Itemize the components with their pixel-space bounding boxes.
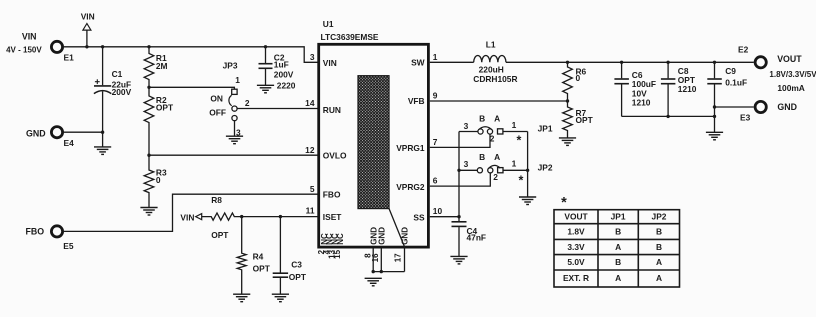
svg-text:JP2: JP2 bbox=[538, 162, 553, 172]
svg-text:3: 3 bbox=[464, 159, 469, 169]
svg-text:R8: R8 bbox=[211, 195, 222, 205]
svg-text:VIN: VIN bbox=[323, 58, 337, 68]
ground below C2 bbox=[257, 85, 274, 93]
svg-text:OPT: OPT bbox=[156, 103, 174, 113]
svg-text:3: 3 bbox=[464, 121, 469, 131]
svg-text:10: 10 bbox=[433, 206, 443, 216]
svg-text:2: 2 bbox=[490, 133, 495, 143]
junction C9/bus bbox=[713, 61, 716, 64]
svg-text:100mA: 100mA bbox=[777, 83, 804, 93]
label R2 value bbox=[156, 95, 174, 113]
svg-text:B: B bbox=[479, 113, 485, 123]
junction C6/bus bbox=[620, 61, 623, 64]
wire VOUT bus bbox=[506, 61, 754, 63]
wire JP1 pin1 bbox=[503, 131, 528, 133]
svg-text:7: 7 bbox=[433, 137, 438, 147]
junction pin16/gnd bbox=[380, 270, 383, 273]
inductor L1 bbox=[474, 55, 506, 62]
junction C1/E4 bbox=[101, 131, 104, 134]
junction C1/bus bbox=[101, 45, 104, 48]
wire JP pin3 column bbox=[458, 132, 460, 217]
svg-text:1.8V: 1.8V bbox=[567, 227, 585, 237]
svg-text:NC: NC bbox=[336, 233, 345, 245]
svg-text:E3: E3 bbox=[740, 112, 751, 122]
svg-text:9: 9 bbox=[433, 91, 438, 101]
svg-text:JP1: JP1 bbox=[538, 124, 553, 134]
svg-text:1210: 1210 bbox=[678, 84, 697, 94]
svg-text:1: 1 bbox=[512, 159, 517, 169]
resistor R6 bbox=[563, 62, 573, 101]
svg-text:VOUT: VOUT bbox=[777, 54, 802, 64]
svg-text:E5: E5 bbox=[63, 241, 74, 251]
wire SW to L1 bbox=[430, 61, 474, 63]
svg-text:SW: SW bbox=[411, 58, 425, 68]
wire OVLO net bbox=[149, 154, 318, 156]
label R3 value bbox=[156, 167, 167, 185]
svg-text:47nF: 47nF bbox=[467, 233, 487, 243]
label C8 value bbox=[678, 66, 697, 94]
svg-text:1: 1 bbox=[433, 52, 438, 62]
capacitor C9 bbox=[707, 62, 722, 132]
svg-text:12: 12 bbox=[305, 145, 315, 155]
capacitor C3 bbox=[273, 217, 288, 295]
wire VFB net bbox=[430, 100, 568, 102]
junction R6/bus bbox=[566, 61, 569, 64]
label C9 value bbox=[725, 66, 747, 87]
wire JP3 pin3 to ground bbox=[234, 121, 236, 137]
ground below C1 bbox=[94, 147, 111, 155]
svg-text:GND: GND bbox=[777, 102, 797, 112]
svg-text:VPRG2: VPRG2 bbox=[396, 182, 425, 192]
resistor R4 bbox=[237, 217, 246, 295]
resistor R8 bbox=[202, 213, 318, 220]
svg-text:16: 16 bbox=[371, 253, 380, 262]
capacitor C2 bbox=[259, 47, 273, 86]
terminal E2 bbox=[755, 57, 766, 68]
svg-text:A: A bbox=[615, 242, 621, 252]
svg-text:VIN: VIN bbox=[22, 31, 37, 41]
wire VPRG2 net bbox=[430, 173, 491, 186]
wire JP pin1 column bbox=[527, 132, 529, 198]
svg-text:0: 0 bbox=[576, 73, 581, 83]
svg-text:B: B bbox=[615, 257, 621, 267]
node VIN arrow left (R8) bbox=[180, 212, 201, 222]
svg-text:3: 3 bbox=[310, 52, 315, 62]
svg-text:JP1: JP1 bbox=[611, 212, 626, 222]
junction C8/bus bbox=[666, 61, 669, 64]
svg-text:C1: C1 bbox=[112, 69, 123, 79]
svg-text:B: B bbox=[656, 242, 662, 252]
label C1 value bbox=[112, 69, 132, 97]
table VOUT/JP1/JP2 bbox=[554, 210, 680, 287]
label C3 value bbox=[289, 259, 307, 281]
ground below R3 bbox=[140, 208, 157, 216]
svg-text:ON: ON bbox=[210, 94, 223, 104]
svg-text:VIN: VIN bbox=[180, 212, 194, 222]
terminal E1 bbox=[51, 41, 62, 52]
ground below R4 bbox=[233, 294, 250, 302]
svg-text:LTC3639EMSE: LTC3639EMSE bbox=[321, 32, 379, 42]
ground below C3 bbox=[272, 294, 289, 302]
svg-text:VPRG1: VPRG1 bbox=[396, 143, 425, 153]
label C6 value bbox=[632, 70, 656, 108]
resistor R1 bbox=[144, 47, 154, 88]
wire VPRG1 net bbox=[430, 134, 490, 147]
svg-text:OVLO: OVLO bbox=[323, 151, 347, 161]
wire output ground bus bbox=[622, 115, 715, 117]
wire JP2 pin1 bbox=[503, 169, 528, 171]
svg-text:A: A bbox=[615, 273, 621, 283]
svg-text:11: 11 bbox=[306, 206, 315, 216]
resistor R2 bbox=[144, 87, 154, 155]
junction VIN-arrow/bus bbox=[85, 45, 88, 48]
svg-text:C3: C3 bbox=[291, 259, 302, 269]
exposed pad bbox=[358, 76, 389, 209]
capacitor C6 bbox=[614, 62, 629, 116]
svg-text:SS: SS bbox=[413, 212, 425, 222]
svg-text:2: 2 bbox=[245, 98, 250, 108]
svg-text:A: A bbox=[494, 152, 500, 162]
svg-text:OPT: OPT bbox=[253, 263, 271, 273]
wire GND pins to ground bbox=[373, 247, 404, 272]
svg-text:1210: 1210 bbox=[632, 98, 651, 108]
svg-text:RUN: RUN bbox=[323, 105, 341, 115]
terminal E3 bbox=[755, 101, 766, 112]
wire FBO net bbox=[64, 194, 318, 231]
pin NC names rotated bbox=[320, 233, 345, 245]
wire SS net bbox=[430, 216, 459, 218]
label C4 value bbox=[467, 226, 487, 243]
junction C2/bus bbox=[264, 45, 267, 48]
svg-text:200V: 200V bbox=[274, 70, 294, 80]
svg-text:E1: E1 bbox=[64, 53, 75, 63]
capacitor C1 bbox=[94, 47, 111, 132]
label R7 value bbox=[576, 108, 594, 125]
ground below JP column bbox=[519, 197, 536, 205]
svg-text:FBO: FBO bbox=[323, 190, 341, 200]
svg-text:GND: GND bbox=[26, 128, 46, 138]
junction R1/R2/JP3 bbox=[147, 86, 150, 89]
svg-text:1: 1 bbox=[512, 120, 517, 130]
ground below C4 bbox=[450, 256, 467, 264]
svg-text:A: A bbox=[494, 113, 500, 123]
capacitor C4 bbox=[452, 217, 467, 257]
resistor R3 bbox=[144, 155, 154, 207]
table row EXT. R bbox=[563, 273, 662, 283]
junction R1/bus bbox=[147, 45, 150, 48]
svg-text:14: 14 bbox=[305, 98, 315, 108]
svg-text:VOUT: VOUT bbox=[564, 212, 588, 222]
jumper JP3 bbox=[229, 89, 237, 121]
wire VIN top bus bbox=[64, 47, 318, 63]
terminal E5 bbox=[51, 226, 62, 237]
table row 1.8V bbox=[567, 227, 662, 237]
junction C8/ground bus bbox=[666, 115, 669, 118]
ground below R7 bbox=[559, 138, 576, 146]
svg-text:CDRH105R: CDRH105R bbox=[473, 74, 517, 84]
svg-text:0: 0 bbox=[156, 175, 161, 185]
ground below U1 bbox=[365, 278, 382, 286]
label R6 value bbox=[576, 67, 587, 83]
svg-text:B: B bbox=[656, 227, 662, 237]
wire E4 to C1 bbox=[64, 131, 103, 133]
junction R6/R7/VFB bbox=[566, 99, 569, 102]
svg-text:EXT. R: EXT. R bbox=[563, 273, 589, 283]
svg-text:C9: C9 bbox=[725, 66, 736, 76]
svg-text:VIN: VIN bbox=[81, 12, 95, 22]
wire E3 net bbox=[715, 106, 754, 108]
junction SS/C4 bbox=[457, 215, 460, 218]
svg-text:A: A bbox=[656, 257, 662, 267]
wire JP1 pin3 bbox=[459, 131, 478, 133]
svg-text:0.1uF: 0.1uF bbox=[725, 77, 747, 87]
junction ISET/C3 bbox=[279, 215, 282, 218]
svg-text:JP3: JP3 bbox=[223, 60, 238, 70]
ground below JP3 bbox=[226, 136, 243, 144]
svg-text:3.3V: 3.3V bbox=[567, 242, 585, 252]
svg-text:E4: E4 bbox=[64, 138, 75, 148]
junction JP2 pin1/column bbox=[526, 169, 529, 172]
svg-text:2220: 2220 bbox=[277, 80, 296, 90]
label C2 value bbox=[274, 52, 296, 90]
svg-text:*: * bbox=[516, 134, 521, 148]
wire pad to pin17 bbox=[389, 209, 405, 247]
pin numbers 2 4 13 15 rotated bbox=[317, 249, 342, 258]
svg-text:5: 5 bbox=[310, 184, 315, 194]
svg-text:JP2: JP2 bbox=[652, 212, 667, 222]
svg-text:OPT: OPT bbox=[211, 230, 229, 240]
svg-text:B: B bbox=[615, 227, 621, 237]
svg-text:*: * bbox=[518, 173, 523, 187]
svg-text:2: 2 bbox=[493, 172, 498, 182]
svg-text:R4: R4 bbox=[253, 252, 264, 262]
jumper JP1 bbox=[478, 127, 503, 134]
capacitor C8 bbox=[661, 62, 676, 116]
pin GND names rotated bbox=[369, 227, 409, 245]
svg-text:L1: L1 bbox=[486, 40, 496, 50]
svg-text:*: * bbox=[561, 195, 567, 211]
svg-text:200V: 200V bbox=[112, 87, 132, 97]
svg-text:5.0V: 5.0V bbox=[567, 257, 585, 267]
node VIN arrow symbol bbox=[81, 12, 95, 47]
svg-text:6: 6 bbox=[433, 176, 438, 186]
terminal E4 bbox=[51, 127, 62, 138]
table row 5.0V bbox=[567, 257, 662, 267]
svg-text:U1: U1 bbox=[323, 19, 334, 29]
svg-text:B: B bbox=[479, 152, 485, 162]
svg-text:A: A bbox=[656, 273, 662, 283]
svg-text:VFB: VFB bbox=[408, 96, 425, 106]
svg-text:1uF: 1uF bbox=[274, 60, 289, 70]
resistor R7 bbox=[563, 101, 573, 138]
ground below C9 bbox=[706, 132, 723, 140]
svg-text:GND: GND bbox=[401, 227, 410, 245]
svg-text:1.8V/3.3V/5V: 1.8V/3.3V/5V bbox=[769, 70, 816, 79]
wire R1/R2 to JP3 pin1 bbox=[149, 87, 234, 89]
wire RUN net bbox=[237, 108, 318, 110]
junction JP2 pin3/column bbox=[457, 169, 460, 172]
svg-text:17: 17 bbox=[393, 253, 402, 262]
svg-text:15: 15 bbox=[333, 249, 342, 258]
junction ISET/R4 bbox=[240, 215, 243, 218]
svg-text:1: 1 bbox=[235, 75, 240, 85]
junction C9/E3 bbox=[713, 105, 716, 108]
junction C9/ground bus bbox=[713, 115, 716, 118]
svg-text:ISET: ISET bbox=[323, 212, 342, 222]
svg-text:GND: GND bbox=[377, 227, 386, 245]
label R4 value bbox=[253, 252, 271, 274]
svg-text:2M: 2M bbox=[156, 61, 168, 71]
label R1 value bbox=[156, 53, 168, 71]
svg-text:FBO: FBO bbox=[26, 227, 45, 237]
svg-text:OPT: OPT bbox=[289, 272, 307, 282]
junction R2/R3/OVLO bbox=[147, 154, 150, 157]
wire JP2 pin3 bbox=[459, 169, 477, 171]
svg-text:OFF: OFF bbox=[209, 108, 226, 118]
svg-text:E2: E2 bbox=[738, 44, 749, 54]
table row 3.3V bbox=[567, 242, 662, 252]
svg-text:OPT: OPT bbox=[576, 115, 594, 125]
svg-text:4V - 150V: 4V - 150V bbox=[6, 46, 42, 55]
op-amp U1 IC body bbox=[319, 44, 429, 247]
junction pin8/gnd bbox=[372, 270, 375, 273]
jumper JP2 bbox=[477, 165, 503, 172]
